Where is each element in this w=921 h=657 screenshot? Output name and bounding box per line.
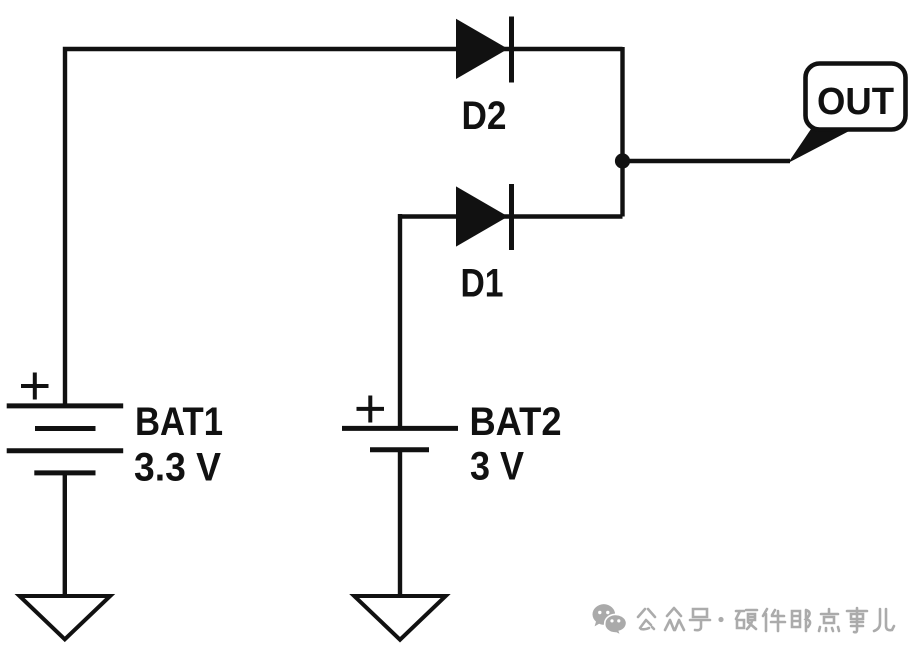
hanzi jian [763, 609, 785, 631]
hanzi er [874, 609, 894, 631]
svg-text:BAT1: BAT1 [135, 400, 223, 444]
wire BAT1- to ground [63, 474, 67, 596]
hanzi dian [819, 609, 839, 631]
diode D2 [456, 17, 512, 83]
hanzi gong [638, 609, 655, 629]
svg-text:OUT: OUT [817, 81, 894, 123]
svg-text:D2: D2 [462, 94, 507, 138]
battery BAT2 [342, 428, 458, 449]
watermark text (hand-drawn hanzi) [638, 608, 894, 632]
wire OUT horizontal from junction [623, 159, 791, 163]
ground GND1 [20, 596, 111, 639]
OUT flag box [806, 64, 906, 130]
svg-text:3.3 V: 3.3 V [134, 446, 221, 490]
node junction dot [615, 153, 630, 168]
svg-text:D1: D1 [461, 262, 504, 306]
middle dot [718, 617, 723, 622]
hanzi shi [847, 608, 867, 632]
wire net BAT1+ to D2 anode (left vertical and top horizontal) [65, 49, 623, 404]
BAT1 plus sign [21, 373, 49, 400]
hanzi hao [690, 609, 710, 630]
watermark wechat icon [593, 604, 616, 626]
hanzi ying [736, 610, 757, 629]
ground GND2 [354, 596, 446, 640]
BAT2 plus sign [357, 396, 385, 423]
diode D1 [456, 184, 512, 250]
hanzi zhong [665, 608, 684, 630]
wire BAT2- to ground [398, 451, 402, 596]
wire BAT2+ vertical from D1 anode [398, 214, 402, 428]
OUT flag tail [788, 129, 853, 163]
svg-text:3 V: 3 V [470, 445, 524, 489]
wire D2 cathode down to D1 cathode (right vertical) [620, 47, 624, 217]
battery BAT1 [7, 406, 124, 473]
svg-text:BAT2: BAT2 [470, 400, 562, 444]
wire D1 net horizontal [400, 214, 623, 218]
hanzi na [792, 610, 810, 631]
